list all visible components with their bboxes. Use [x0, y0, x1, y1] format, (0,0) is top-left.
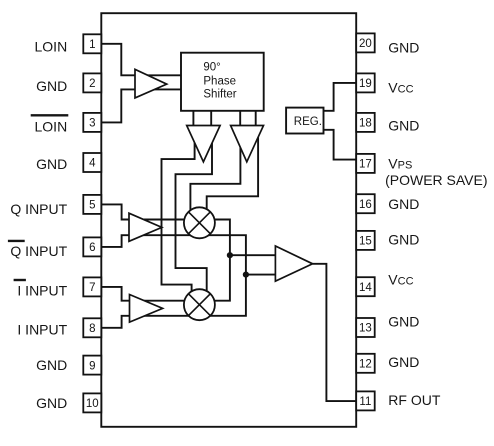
svg-text:GND: GND [388, 232, 419, 248]
svg-text:GND: GND [388, 39, 419, 55]
svg-text:19: 19 [359, 78, 372, 90]
svg-text:(POWER SAVE): (POWER SAVE) [385, 172, 487, 188]
svg-text:20: 20 [359, 38, 372, 50]
svg-text:90°: 90° [203, 61, 220, 73]
svg-text:VCC: VCC [388, 80, 413, 96]
svg-text:LOIN: LOIN [35, 38, 68, 54]
svg-text:5: 5 [89, 200, 95, 212]
svg-text:14: 14 [359, 282, 372, 294]
svg-text:Q INPUT: Q INPUT [10, 201, 67, 217]
svg-text:GND: GND [36, 156, 67, 172]
svg-text:Phase: Phase [203, 76, 236, 88]
svg-text:GND: GND [388, 196, 419, 212]
svg-text:RF OUT: RF OUT [388, 392, 441, 408]
svg-text:GND: GND [388, 314, 419, 330]
svg-text:3: 3 [89, 118, 95, 130]
svg-text:9: 9 [89, 360, 95, 372]
svg-text:10: 10 [86, 398, 99, 410]
svg-text:4: 4 [89, 158, 96, 170]
svg-text:2: 2 [89, 78, 95, 90]
svg-text:LOIN: LOIN [35, 119, 68, 135]
svg-text:17: 17 [359, 159, 372, 171]
svg-text:Shifter: Shifter [203, 89, 236, 101]
svg-text:Q INPUT: Q INPUT [10, 243, 67, 259]
svg-text:VPS: VPS [388, 155, 412, 171]
svg-text:I INPUT: I INPUT [17, 321, 67, 337]
svg-text:GND: GND [36, 357, 67, 373]
svg-text:7: 7 [89, 282, 95, 294]
svg-text:16: 16 [359, 199, 372, 211]
svg-text:8: 8 [89, 323, 95, 335]
svg-text:VCC: VCC [388, 272, 413, 288]
svg-text:GND: GND [36, 78, 67, 94]
svg-text:1: 1 [89, 39, 95, 51]
svg-text:15: 15 [359, 236, 372, 248]
svg-text:GND: GND [388, 354, 419, 370]
svg-text:11: 11 [359, 396, 371, 408]
svg-text:GND: GND [388, 118, 419, 134]
svg-text:6: 6 [89, 242, 95, 254]
svg-text:18: 18 [359, 118, 372, 130]
svg-text:13: 13 [359, 323, 372, 335]
svg-text:I INPUT: I INPUT [17, 282, 67, 298]
svg-text:GND: GND [36, 395, 67, 411]
svg-text:12: 12 [359, 359, 372, 371]
svg-text:REG.: REG. [294, 116, 322, 128]
